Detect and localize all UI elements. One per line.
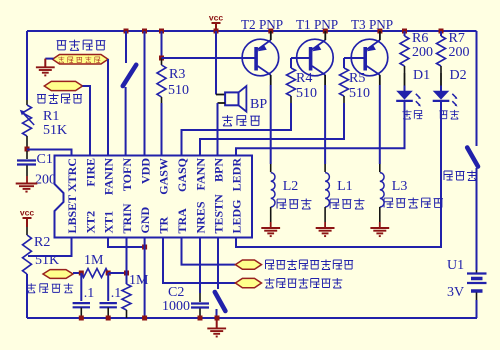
- wire R3 to GASW pin: [161, 103, 163, 156]
- node 火焰检测 text: [37, 94, 82, 104]
- wire rail down right side to water switch: [476, 31, 478, 146]
- label 常闭干簧管 (reed switch): [53, 55, 109, 65]
- wire bottom ground rail: [27, 317, 477, 319]
- switch 水开关 water switch blade: [467, 148, 478, 167]
- node 1M left junction: [79, 271, 84, 276]
- wire water switch to battery +: [476, 168, 478, 270]
- node 风扇确认 title text: [57, 40, 106, 51]
- svg-text:NRES: NRES: [194, 201, 208, 233]
- node 可控硅点火脉冲 text: [265, 278, 343, 288]
- svg-text:R3: R3: [169, 67, 185, 82]
- svg-text:vcc: vcc: [209, 13, 224, 23]
- node 升压电路电源控制 text: [266, 260, 354, 270]
- wire R4 top to T1 base: [291, 57, 310, 59]
- svg-text:R7: R7: [449, 31, 465, 46]
- resistor 1M vertical: [122, 284, 131, 310]
- svg-text:FANN: FANN: [194, 158, 208, 191]
- op-amp U? main controller IC body: [55, 156, 253, 238]
- wire R1 to junction: [26, 136, 28, 148]
- wire XT1 pin to GND net: [108, 238, 145, 248]
- node rail/R3 junction: [159, 29, 164, 34]
- transistor T2 PNP: [242, 39, 279, 76]
- svg-text:510: 510: [296, 86, 317, 101]
- node 强吸阀 text: [330, 199, 364, 209]
- wire T1 collector to L1: [324, 75, 326, 85]
- resistor 1M horizontal: [81, 269, 108, 278]
- resistor R4 510: [287, 68, 296, 96]
- svg-text:L1: L1: [337, 179, 353, 194]
- wire to R5: [343, 58, 345, 68]
- inductor L1 suction valve: [324, 164, 326, 172]
- svg-text:L2: L2: [283, 179, 299, 194]
- buzzer BP speaker symbol: [225, 92, 238, 105]
- svg-text:FIRE: FIRE: [84, 158, 98, 187]
- node rail/R6 junction: [402, 29, 407, 34]
- wire to R4: [290, 58, 292, 68]
- svg-text:.1: .1: [111, 286, 122, 301]
- wire T1 emitter lead to rail: [324, 31, 326, 40]
- label 火焰检测 (flame detect): [44, 81, 82, 90]
- wire R3 top node to T2 base: [162, 57, 256, 59]
- wire T2 emitter lead to rail: [270, 31, 272, 40]
- node 绿色 text: [439, 110, 459, 119]
- node switch/ground/rail junction: [215, 316, 220, 321]
- node C2/rail junction: [198, 316, 203, 321]
- node 蜂鸣器 text: [222, 115, 260, 126]
- svg-text:1M: 1M: [84, 253, 104, 268]
- node 水开关 text: [444, 171, 477, 181]
- svg-text:D1: D1: [413, 68, 430, 83]
- resistor R3 510: [157, 65, 166, 97]
- svg-text:51K: 51K: [35, 253, 59, 268]
- wire T3 emitter lead to rail: [379, 31, 381, 40]
- transistor T3 PNP: [351, 39, 388, 76]
- label arrow SCR ignition pulse: [235, 278, 261, 287]
- wire rail to buzzer top lead: [215, 31, 217, 95]
- svg-text:510: 510: [168, 83, 189, 98]
- node XT1/GND junction: [142, 245, 147, 250]
- wire GND pin to bottom rail: [144, 238, 146, 319]
- node 风扇继电器 text: [384, 198, 443, 208]
- LED D2: [440, 73, 442, 86]
- label arrow boost control: [235, 260, 261, 269]
- inductor L3 fan relay: [379, 164, 381, 172]
- resistor R1 51K photoresistor: [23, 105, 32, 136]
- svg-text:XT1: XT1: [102, 211, 116, 234]
- wire rail to VDD pin: [144, 31, 146, 156]
- node rail/VDD junction: [142, 29, 147, 34]
- wire TRIN pin down: [126, 238, 128, 274]
- svg-text:200: 200: [412, 45, 433, 60]
- svg-text:510: 510: [349, 86, 370, 101]
- wire label to ground: [45, 58, 53, 60]
- switch test point blade: [215, 292, 226, 311]
- svg-text:TRIN: TRIN: [120, 203, 134, 233]
- wire FANIN pin to label tip: [107, 59, 109, 156]
- svg-text:1000: 1000: [162, 299, 190, 314]
- wire TRA pin to boost label: [182, 238, 236, 265]
- svg-text:T3 PNP: T3 PNP: [351, 17, 393, 32]
- svg-text:3V: 3V: [447, 285, 464, 300]
- ground below C1: [16, 184, 38, 192]
- wire VCC top rail: [27, 30, 477, 32]
- node 红色 text: [402, 110, 422, 119]
- svg-text:L3: L3: [392, 179, 408, 194]
- label 点火确认 (ignition confirm): [43, 270, 73, 279]
- svg-text:R4: R4: [296, 71, 312, 86]
- svg-text:200: 200: [35, 173, 56, 188]
- ground at reed switch label: [36, 67, 55, 75]
- svg-text:R1: R1: [43, 109, 59, 124]
- svg-text:U1: U1: [447, 258, 464, 273]
- battery U1 3V: [476, 270, 478, 273]
- node VCC/rail junction: [214, 29, 219, 34]
- svg-text:R2: R2: [34, 235, 50, 250]
- node rail/fan-switch junction: [124, 29, 129, 34]
- wire rail to fan switch: [125, 31, 127, 63]
- wire R5 bottom to FANN pin: [200, 103, 344, 156]
- svg-text:200: 200: [449, 45, 470, 60]
- svg-text:TOFN: TOFN: [120, 158, 134, 191]
- resistor R5 510: [340, 68, 349, 96]
- svg-text:C2: C2: [168, 285, 184, 300]
- svg-text:T1 PNP: T1 PNP: [296, 17, 338, 32]
- wire D1 to LEDR pin: [236, 106, 405, 156]
- wire left border to R1: [26, 31, 28, 100]
- ground bottom center: [207, 328, 226, 336]
- svg-text:51K: 51K: [43, 123, 67, 138]
- wire R5 top to T3 base: [344, 57, 365, 59]
- wire R4 bottom to GASQ pin: [182, 103, 292, 156]
- svg-text:D2: D2: [450, 68, 467, 83]
- resistor R7 200: [440, 31, 442, 36]
- wire D2 down to LEDG pin: [236, 106, 441, 247]
- svg-text:GASQ: GASQ: [175, 158, 189, 192]
- capacitor C2 1000: [199, 293, 201, 302]
- node R1/C1/XTRC junction: [25, 147, 30, 152]
- wire T2 collector to L2: [270, 75, 272, 85]
- wire fan switch to TOFN pin: [125, 87, 127, 156]
- svg-text:1M: 1M: [129, 273, 149, 288]
- svg-text:VDD: VDD: [139, 158, 153, 184]
- wire rail to R3 top node: [161, 31, 163, 58]
- capacitor .1 at x=81.3: [80, 273, 82, 301]
- capacitor .1 at x=108.2: [107, 273, 109, 301]
- svg-text:GASW: GASW: [157, 158, 171, 195]
- svg-text:BP: BP: [250, 97, 267, 112]
- svg-text:TRA: TRA: [175, 208, 189, 234]
- svg-text:LEDR: LEDR: [230, 158, 244, 192]
- wire label to 1M: [73, 272, 81, 274]
- capacitor C1 200: [26, 151, 28, 159]
- wire battery - to bottom rail: [476, 300, 478, 318]
- node 1M right junction: [106, 271, 111, 276]
- svg-text:TESTN: TESTN: [212, 194, 226, 234]
- wire 1M to TRIN column: [108, 272, 126, 274]
- wire T3 collector to L3: [379, 75, 381, 85]
- svg-text:.1: .1: [84, 286, 95, 301]
- switch fan reed contact: [123, 65, 136, 86]
- wire buzzer bottom to BPN pin: [218, 102, 226, 104]
- transistor T1 PNP: [297, 39, 334, 76]
- svg-text:T2 PNP: T2 PNP: [241, 17, 283, 32]
- svg-text:R5: R5: [349, 71, 365, 86]
- svg-text:FANIN: FANIN: [102, 158, 116, 195]
- wire TR pin to SCR pulse label: [163, 238, 235, 284]
- svg-text:C1: C1: [37, 152, 53, 167]
- svg-text:BPN: BPN: [212, 158, 226, 182]
- wire LBSET pin to R2: [28, 238, 72, 257]
- wire NRES pin to C2: [199, 238, 201, 294]
- svg-text:LEDG: LEDG: [230, 199, 244, 233]
- wire junction to XTRC pin: [27, 150, 72, 156]
- wire R2 bottom to rail: [26, 274, 28, 318]
- node rail/R7 junction: [439, 29, 444, 34]
- LED D1: [404, 73, 406, 86]
- svg-text:vcc: vcc: [20, 208, 35, 218]
- svg-text:GND: GND: [138, 207, 152, 234]
- inductor L2 holding valve: [270, 164, 272, 172]
- svg-text:XTRC: XTRC: [65, 158, 79, 192]
- node R3 top / T2 base junction: [159, 56, 164, 61]
- svg-text:R6: R6: [412, 31, 428, 46]
- wire FIRE pin to flame label: [83, 86, 91, 156]
- svg-text:XT2: XT2: [84, 211, 98, 234]
- resistor R2 51K: [23, 235, 32, 274]
- node TRIN/1M junction: [124, 271, 129, 276]
- node GND/rail junction: [142, 316, 147, 321]
- node 维持阀 text: [277, 199, 311, 209]
- svg-text:LBSET: LBSET: [65, 195, 79, 234]
- svg-text:TR: TR: [157, 216, 171, 233]
- node 点火确认 text: [26, 283, 73, 293]
- resistor R6 200: [404, 31, 406, 36]
- wire TESTN pin to test switch: [217, 238, 219, 290]
